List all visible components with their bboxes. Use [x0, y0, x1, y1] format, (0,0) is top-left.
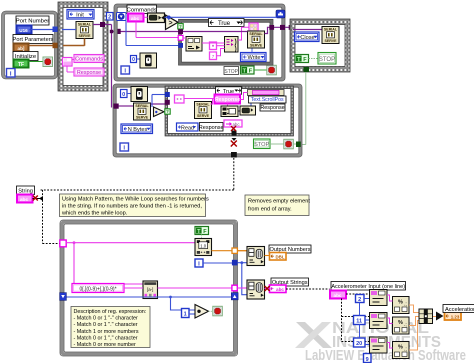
svg-text:N Bytes: N Bytes	[128, 127, 148, 133]
svg-text:Using Match Pattern, the While: Using Match Pattern, the While Loop sear…	[62, 197, 209, 203]
svg-text:- Match 0 or 1 "." character: - Match 0 or 1 "." character	[74, 322, 138, 328]
svg-text:- Match 0 or 1 "-" character: - Match 0 or 1 "-" character	[74, 316, 139, 322]
svg-text:- Match 0 or 1 "," character: - Match 0 or 1 "," character	[74, 335, 138, 341]
svg-text:True: True	[218, 21, 231, 27]
svg-text:abc: abc	[232, 122, 240, 127]
svg-text:1.23: 1.23	[451, 315, 460, 320]
svg-text:- Match 0 or more number: - Match 0 or more number	[74, 342, 137, 348]
svg-text:Init: Init	[76, 12, 84, 18]
svg-text:Accelerometer Input (one line): Accelerometer Input (one line)	[331, 284, 405, 290]
svg-text:[a-]: [a-]	[147, 287, 153, 292]
svg-text:>: >	[169, 20, 173, 27]
svg-text:Read: Read	[181, 125, 194, 131]
svg-text:Port Parameters: Port Parameters	[13, 37, 54, 43]
svg-text:Acceleration: Acceleration	[445, 307, 474, 313]
svg-text:9: 9	[366, 357, 369, 363]
svg-text:Description of reg. expression: Description of reg. expression:	[74, 309, 147, 315]
svg-text:.;: .;	[404, 302, 407, 308]
svg-text:Removes empty element: Removes empty element	[248, 199, 310, 205]
svg-text:Close: Close	[300, 35, 314, 41]
svg-text:Response: Response	[199, 125, 224, 131]
svg-text:2: 2	[108, 15, 111, 21]
svg-text:which ends the while loop.: which ends the while loop.	[61, 211, 128, 217]
svg-text:abc: abc	[131, 16, 140, 22]
svg-text:Write: Write	[248, 55, 261, 61]
svg-text:STOP: STOP	[254, 142, 269, 148]
svg-text:U16: U16	[19, 28, 28, 33]
svg-text:abc: abc	[276, 287, 284, 292]
svg-text:0: 0	[132, 57, 135, 63]
svg-text:2: 2	[358, 297, 361, 303]
svg-text:Response: Response	[77, 70, 101, 76]
svg-text:ab]: ab]	[18, 46, 25, 51]
svg-text:Response: Response	[260, 105, 284, 111]
svg-text:i: i	[10, 71, 12, 78]
svg-text:Response: Response	[215, 97, 240, 103]
svg-text:abc: abc	[20, 197, 29, 203]
svg-text:11: 11	[356, 319, 362, 325]
svg-text:Port Number: Port Number	[16, 19, 49, 25]
svg-text:7: 7	[212, 54, 215, 59]
svg-text:STOP: STOP	[319, 57, 335, 63]
svg-text:- Match 1 or more numbers: - Match 1 or more numbers	[74, 329, 139, 335]
svg-text:DBL: DBL	[275, 255, 284, 260]
svg-text:STOP: STOP	[224, 69, 238, 75]
svg-text:?: ?	[166, 109, 169, 114]
svg-text:%: %	[398, 300, 403, 306]
svg-text:abc: abc	[334, 293, 342, 298]
svg-text:?: ?	[179, 24, 182, 29]
svg-text:from end of array.: from end of array.	[248, 207, 292, 213]
svg-text:0[.](0-9)+[.](0-9)*: 0[.](0-9)+[.](0-9)*	[79, 286, 116, 292]
svg-text:1: 1	[184, 312, 187, 318]
svg-text:0: 0	[122, 92, 125, 98]
svg-text:TF: TF	[18, 62, 24, 68]
svg-text:20: 20	[356, 341, 362, 347]
svg-text:1.0: 1.0	[200, 243, 206, 248]
svg-text:in the string. If no numbers: in the string. If no numbers are found t…	[62, 204, 202, 210]
svg-text:Text.ScrollPos: Text.ScrollPos	[251, 97, 284, 103]
svg-text:Commands: Commands	[75, 57, 103, 63]
